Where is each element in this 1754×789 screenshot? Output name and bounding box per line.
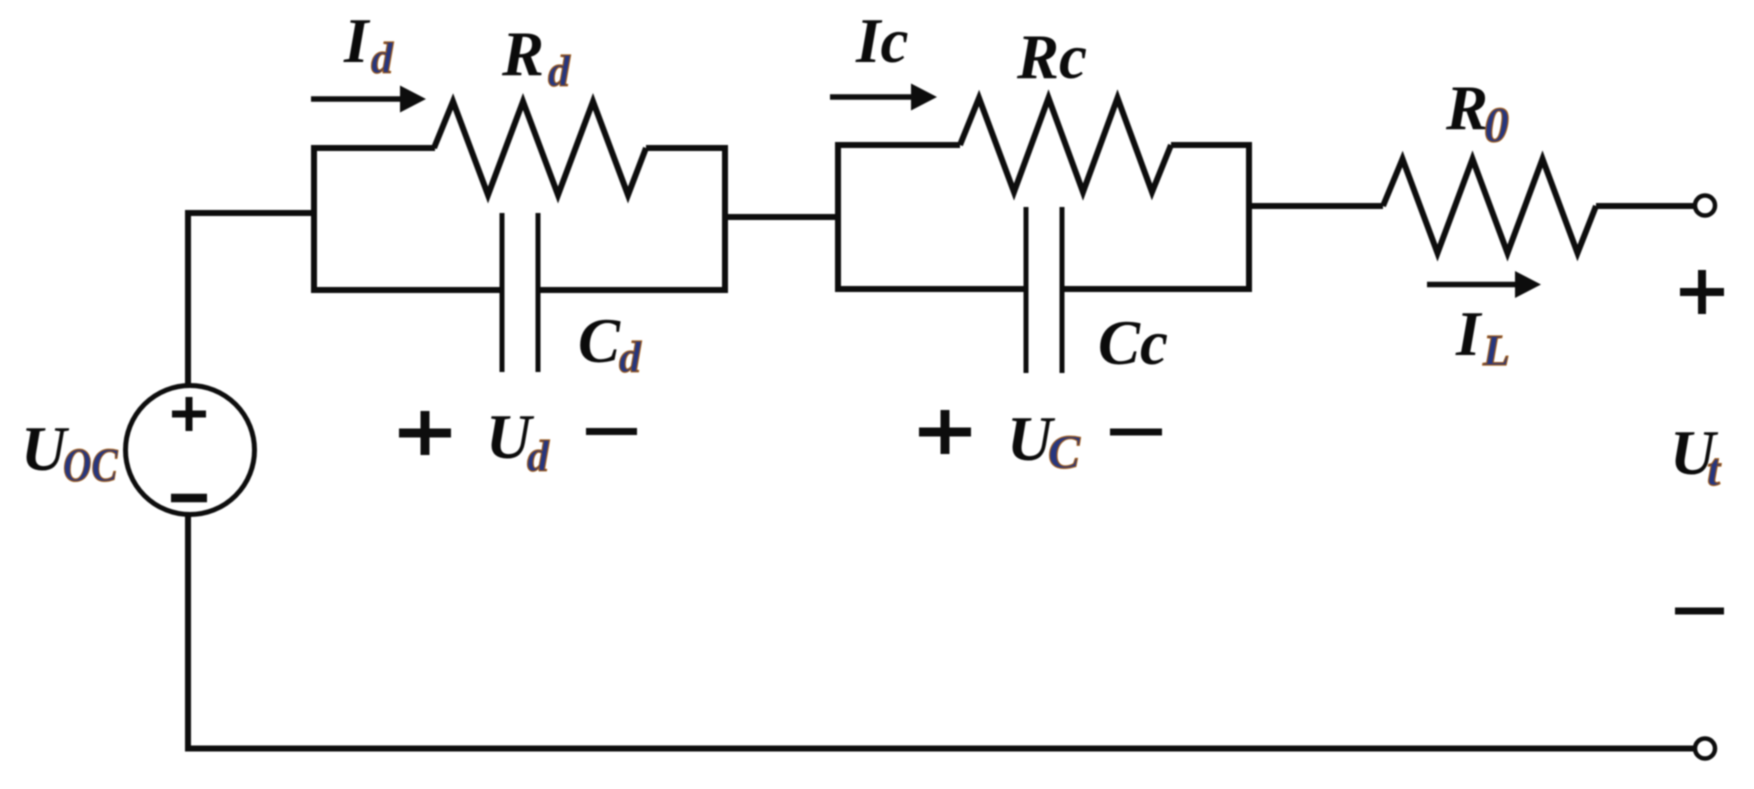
svg-text:Cc: Cc [1098,308,1168,378]
svg-text:R: R [1445,73,1488,143]
svg-text:Ic: Ic [855,6,909,76]
svg-text:0: 0 [1484,96,1509,152]
svg-text:C: C [578,306,621,376]
svg-text:d: d [619,333,642,382]
svg-text:d: d [548,47,571,96]
svg-text:d: d [371,34,394,83]
svg-text:I: I [343,6,371,76]
svg-text:I: I [1455,299,1483,369]
svg-text:C: C [1048,426,1081,479]
svg-text:OC: OC [63,439,118,491]
svg-text:Rc: Rc [1016,22,1087,92]
svg-text:R: R [501,19,544,89]
svg-text:t: t [1707,444,1722,496]
svg-text:L: L [1482,326,1510,375]
svg-text:d: d [527,432,550,481]
